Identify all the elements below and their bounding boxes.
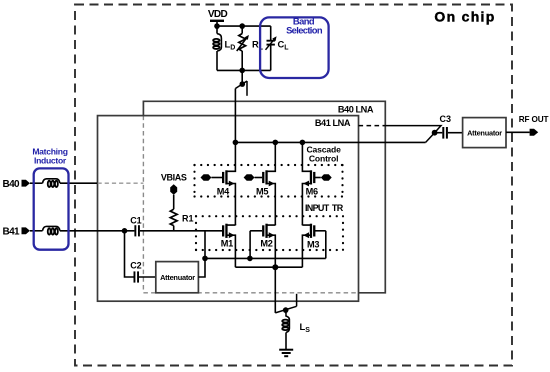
band switch (VDD path) (235, 81, 247, 96)
svg-text:B41 LNA: B41 LNA (315, 118, 351, 128)
svg-text:B41: B41 (3, 227, 20, 238)
wire: B40 input (30, 182, 43, 184)
node: band switch pivot (240, 81, 246, 87)
VDD supply symbol (208, 9, 228, 26)
svg-text:VBIAS: VBIAS (161, 172, 187, 182)
attenuator (gain-mode input) (156, 262, 199, 293)
wire: VDD bottom rail (217, 69, 271, 71)
wire: M3 gate drop (325, 231, 327, 259)
node: degeneration junction (272, 264, 278, 270)
RF OUT port (519, 115, 549, 136)
B40 port (3, 179, 30, 190)
cascode dotted region (195, 165, 343, 197)
wire: switch to L_S (285, 310, 287, 315)
wire: to RF OUT (506, 131, 530, 133)
node: gate bus left (202, 256, 208, 262)
svg-text:C2: C2 (130, 260, 142, 270)
attenuator (output) (463, 118, 506, 148)
resistor R1 (170, 209, 193, 231)
svg-text:Selection: Selection (286, 25, 323, 36)
transistor M1 (221, 224, 236, 268)
svg-text:M2: M2 (260, 238, 272, 248)
capacitor C1 (130, 215, 142, 236)
transistor M4 (201, 142, 236, 225)
node: M5 drain (273, 140, 279, 146)
capacitor C_L (variable) (266, 26, 290, 70)
svg-text:B40 LNA: B40 LNA (338, 105, 374, 115)
svg-text:INPUT TR: INPUT TR (305, 203, 344, 213)
transistor M2 (250, 224, 275, 268)
node: M6 drain (300, 140, 306, 146)
L_S band switch (275, 294, 296, 313)
node: top rail / L_D (214, 23, 220, 29)
wire: bottom rail to band switch (241, 70, 243, 84)
capacitor C2 (130, 260, 142, 282)
wire: M2 gate drop (249, 231, 251, 259)
svg-text:VDD: VDD (208, 9, 228, 20)
node: M2 gate on bus (247, 256, 253, 262)
transistor M6 (mirrored) (302, 142, 331, 225)
matching inductor box (32, 146, 68, 249)
B41 port (3, 227, 30, 238)
inductor L_D (213, 26, 235, 70)
svg-text:M6: M6 (306, 187, 318, 197)
wire: B40 input (dashed inactive) (98, 182, 144, 184)
wire: C2 to attenuator (139, 276, 156, 278)
wire: L_S to ground (285, 332, 287, 349)
inductor (B40 matching) (43, 179, 60, 187)
wire: B41 input to C1 (30, 230, 43, 232)
wire: B41 LNA output (solid section) (385, 126, 441, 133)
wire: VDD top rail (217, 25, 271, 27)
input TR dotted region (196, 216, 343, 250)
svg-text:B40: B40 (3, 179, 20, 190)
node: C1/C2 branch (122, 228, 128, 234)
svg-text:Control: Control (309, 153, 339, 163)
wire: cascode drain rail (B40 output) (235, 141, 425, 143)
inductor L_S (282, 315, 310, 334)
capacitor C3 (435, 114, 463, 139)
inductor (B41 matching) (43, 226, 60, 234)
on-chip boundary (dashed) (75, 5, 512, 366)
wire: attenuator to gate bus (198, 231, 205, 277)
svg-text:C3: C3 (440, 114, 452, 124)
ground (279, 350, 293, 357)
wire: gate bus rail (205, 257, 326, 259)
node: output switch (432, 130, 438, 136)
svg-text:On chip: On chip (434, 9, 495, 25)
wire: node to C2 (125, 231, 134, 277)
wire: switch to cascode drain rail (234, 89, 236, 143)
B40 LNA box (143, 101, 385, 292)
svg-text:RF OUT: RF OUT (519, 115, 549, 124)
wire: degeneration line to L_S switch (274, 267, 276, 313)
svg-text:M3: M3 (307, 240, 319, 250)
node: top rail / R_L (239, 23, 245, 29)
svg-text:Attenuator: Attenuator (467, 129, 502, 138)
B41 LNA box (98, 116, 359, 302)
svg-text:C1: C1 (130, 215, 142, 225)
svg-text:Attenuator: Attenuator (160, 273, 195, 282)
wire: B40 output switch arm (426, 133, 435, 143)
node: bottom rail junction (239, 68, 245, 74)
node: L_S switch pivot (283, 307, 289, 313)
transistor M3 (mirrored) (302, 224, 325, 268)
svg-text:M1: M1 (221, 238, 233, 248)
svg-text:Inductor: Inductor (34, 155, 67, 165)
wire: C1 to M1 gate (140, 230, 222, 232)
wire: source bus rail (235, 266, 302, 268)
VBIAS terminal (161, 172, 187, 209)
svg-text:R1: R1 (182, 214, 194, 224)
wire: B41 LNA output (dashed section) (359, 125, 386, 127)
svg-text:M4: M4 (217, 187, 230, 197)
resistor R_L (variable) (237, 26, 264, 70)
svg-text:M5: M5 (256, 187, 268, 197)
Band Selection box (260, 15, 329, 78)
node: M4 drain (233, 140, 239, 146)
transistor M5 (244, 142, 276, 225)
